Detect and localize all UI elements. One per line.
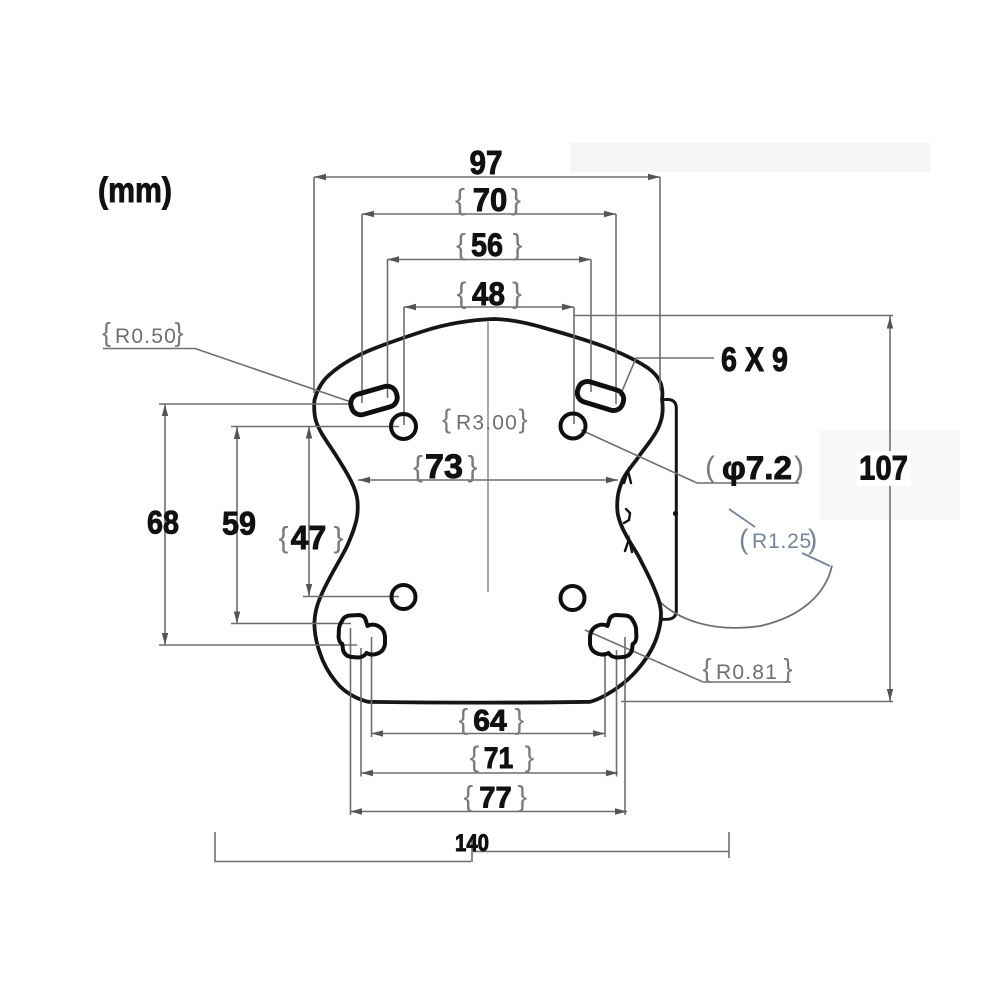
svg-text:64: 64 xyxy=(473,705,507,738)
svg-text:R3.00: R3.00 xyxy=(456,412,518,435)
svg-text:}: } xyxy=(525,742,535,774)
svg-text:59: 59 xyxy=(222,506,256,542)
svg-text:{: { xyxy=(457,277,467,310)
svg-text:{: { xyxy=(442,404,451,434)
svg-text:}: } xyxy=(518,781,528,813)
svg-text:{: { xyxy=(470,742,480,774)
svg-text:{: { xyxy=(464,781,474,813)
svg-text:68: 68 xyxy=(147,505,179,541)
svg-text:70: 70 xyxy=(473,182,508,218)
svg-text:R1.25: R1.25 xyxy=(752,530,812,553)
svg-text:{: { xyxy=(102,318,111,348)
svg-text:(mm): (mm) xyxy=(98,171,172,210)
svg-text:}: } xyxy=(468,451,478,484)
svg-text:73: 73 xyxy=(425,448,463,486)
svg-text:{: { xyxy=(459,704,469,736)
svg-text:}: } xyxy=(175,318,184,348)
svg-text:}: } xyxy=(511,184,521,217)
svg-text:}: } xyxy=(334,522,344,555)
svg-text:6 X 9: 6 X 9 xyxy=(721,341,788,379)
svg-text:{: { xyxy=(455,184,465,217)
svg-text:}: } xyxy=(515,704,525,736)
svg-text:): ) xyxy=(794,451,804,484)
svg-text:R0.50: R0.50 xyxy=(115,325,177,348)
svg-text:): ) xyxy=(808,524,817,555)
svg-text:}: } xyxy=(513,229,523,262)
svg-text:{: { xyxy=(456,229,466,262)
svg-text:{: { xyxy=(703,654,712,684)
svg-text:107: 107 xyxy=(859,450,908,488)
svg-text:47: 47 xyxy=(291,519,327,556)
svg-text:140: 140 xyxy=(455,830,489,857)
svg-text:97: 97 xyxy=(470,144,503,181)
svg-text:71: 71 xyxy=(484,742,514,775)
svg-text:{: { xyxy=(413,451,423,484)
svg-text:48: 48 xyxy=(472,276,505,312)
svg-text:{: { xyxy=(279,522,289,555)
svg-text:R0.81: R0.81 xyxy=(716,661,778,684)
svg-text:77: 77 xyxy=(479,782,512,815)
svg-text:}: } xyxy=(784,654,793,684)
svg-text:(: ( xyxy=(739,524,749,555)
svg-text:56: 56 xyxy=(471,227,503,263)
svg-text:(: ( xyxy=(705,451,715,484)
svg-text:φ7.2: φ7.2 xyxy=(722,450,792,486)
svg-text:}: } xyxy=(512,277,522,310)
svg-text:}: } xyxy=(519,404,528,434)
